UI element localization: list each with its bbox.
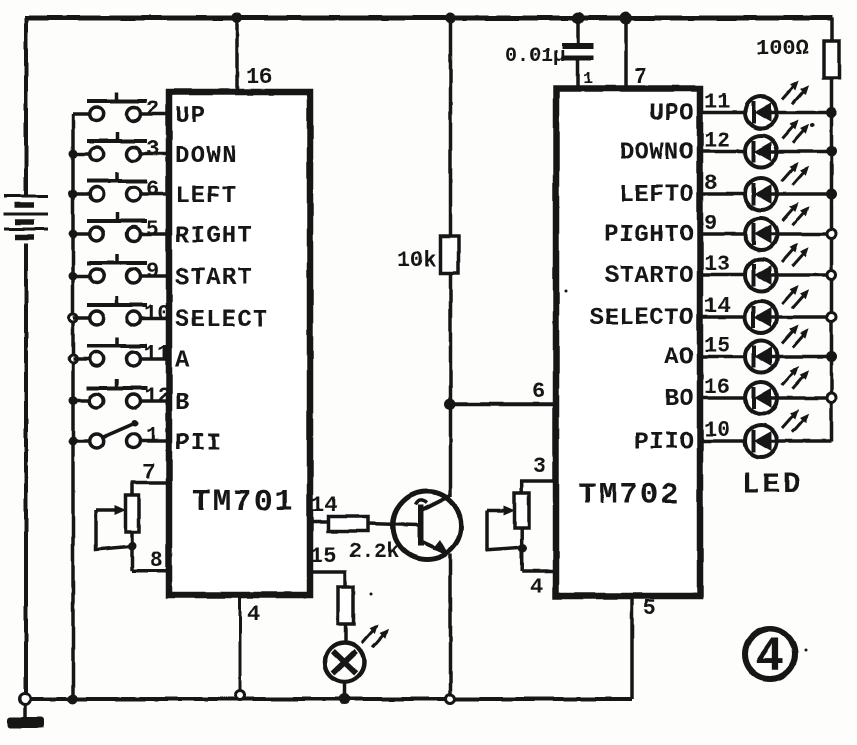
svg-text:1: 1 [146, 424, 159, 449]
svg-text:12: 12 [704, 129, 730, 154]
svg-text:11: 11 [144, 342, 170, 367]
svg-text:14: 14 [311, 493, 337, 518]
svg-text:PIIO: PIIO [634, 429, 694, 456]
svg-text:10k: 10k [397, 248, 437, 273]
svg-text:B: B [175, 390, 191, 417]
svg-text:12: 12 [144, 384, 170, 409]
svg-text:4: 4 [530, 575, 543, 600]
svg-text:10: 10 [704, 418, 730, 443]
svg-text:16: 16 [246, 65, 272, 90]
svg-text:100Ω: 100Ω [756, 36, 809, 61]
svg-text:LEFT: LEFT [175, 183, 237, 210]
svg-text:6: 6 [146, 177, 159, 202]
svg-text:14: 14 [704, 294, 730, 319]
svg-text:15: 15 [310, 544, 336, 569]
svg-text:6: 6 [532, 379, 545, 404]
svg-text:AO: AO [664, 345, 694, 372]
svg-text:7: 7 [142, 460, 155, 485]
svg-text:SELECT: SELECT [175, 307, 269, 334]
svg-text:5: 5 [146, 217, 159, 242]
svg-text:3: 3 [533, 454, 546, 479]
svg-text:2: 2 [146, 97, 159, 122]
svg-text:8: 8 [150, 548, 163, 573]
svg-text:15: 15 [704, 334, 730, 359]
svg-text:4: 4 [247, 602, 260, 627]
svg-text:0.01μ: 0.01μ [505, 45, 565, 68]
svg-text:16: 16 [704, 375, 730, 400]
svg-text:5: 5 [643, 596, 656, 621]
svg-text:SELECTO: SELECTO [590, 305, 694, 332]
svg-text:LEFTO: LEFTO [619, 182, 694, 209]
svg-text:10: 10 [144, 301, 170, 326]
svg-text:11: 11 [704, 90, 730, 115]
svg-text:9: 9 [146, 259, 159, 284]
svg-text:3: 3 [146, 137, 159, 162]
svg-text:UPO: UPO [649, 101, 694, 128]
svg-text:RIGHT: RIGHT [175, 223, 253, 250]
svg-text:TM701: TM701 [192, 485, 295, 520]
svg-text:STARTO: STARTO [605, 263, 694, 290]
svg-text:UP: UP [175, 103, 206, 130]
svg-text:DOWNO: DOWNO [619, 140, 694, 167]
svg-text:A: A [175, 348, 191, 375]
svg-text:DOWN: DOWN [175, 143, 237, 170]
svg-text:START: START [175, 265, 253, 292]
svg-text:8: 8 [704, 171, 717, 196]
svg-text:BO: BO [664, 386, 694, 413]
svg-text:PII: PII [175, 430, 222, 457]
svg-text:LED: LED [742, 468, 803, 501]
svg-text:PIGHTO: PIGHTO [605, 222, 694, 249]
svg-text:TM702: TM702 [578, 478, 681, 513]
svg-text:4: 4 [755, 631, 784, 685]
svg-text:13: 13 [704, 252, 730, 277]
svg-text:9: 9 [704, 211, 717, 236]
svg-text:2.2k: 2.2k [349, 541, 399, 564]
